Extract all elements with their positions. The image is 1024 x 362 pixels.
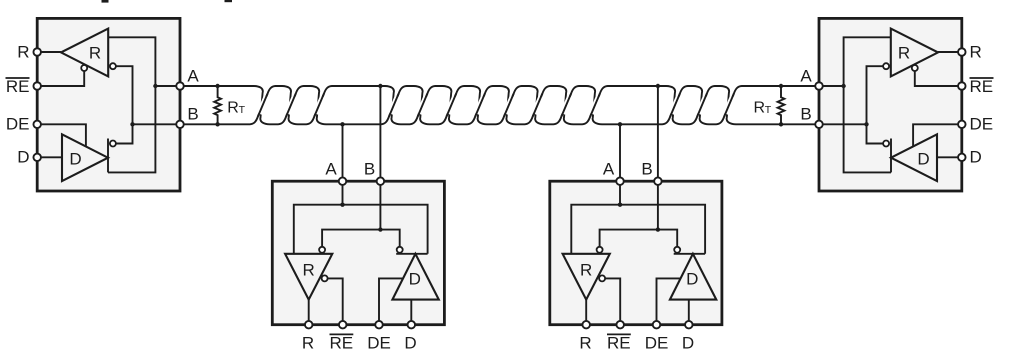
svg-text:RE: RE (607, 334, 631, 353)
pin RE (616, 321, 624, 329)
driver D of U4 (891, 134, 937, 181)
pin B (377, 177, 385, 185)
svg-text:A: A (325, 160, 337, 179)
node B junction (864, 122, 868, 126)
cropped caption fragment 2 (225, 0, 233, 2)
resistor RT (left termination) (214, 86, 221, 124)
pin DE (33, 121, 41, 129)
wire receiver output to R pin (308, 300, 310, 325)
pin B (815, 121, 823, 129)
svg-text:D: D (917, 150, 929, 169)
receiver enable bubble (912, 65, 918, 71)
bus tap junction A (618, 122, 622, 126)
wire receiver enable to RE pin (605, 278, 620, 324)
driver D of U1 (62, 134, 108, 181)
svg-text:R: R (580, 260, 592, 279)
wire driver output+ to node A (620, 205, 705, 254)
pin A (616, 177, 624, 185)
svg-text:D: D (69, 150, 81, 169)
node A junction (618, 203, 622, 207)
svg-text:D: D (404, 334, 416, 353)
wire receiver input+ to node A (844, 37, 891, 86)
pin B (654, 177, 662, 185)
driver output- bubble (110, 141, 116, 147)
node B junction (378, 227, 382, 231)
wire receiver enable to RE pin (328, 278, 343, 324)
driver D of U3 (670, 254, 716, 300)
svg-text:R: R (898, 44, 910, 63)
pin DE (958, 121, 966, 129)
wire D pin to driver input (410, 300, 412, 325)
svg-text:B: B (364, 160, 375, 179)
pin RE (958, 82, 966, 90)
svg-text:R: R (89, 44, 101, 63)
svg-text:RE: RE (970, 77, 994, 96)
wire B pin to node B (657, 181, 659, 229)
transceiver U4 box (819, 18, 962, 191)
driver output bar (107, 139, 109, 173)
wire receiver input+ to node A (294, 205, 343, 254)
resistor RT (right termination) (778, 86, 785, 124)
svg-text:D: D (409, 270, 421, 289)
pin D (685, 321, 693, 329)
pin D (33, 154, 41, 162)
wire DE pin to driver enable (913, 124, 962, 146)
wire crossing (over-pass) (671, 97, 678, 114)
wire crossing (over-pass) (591, 97, 598, 114)
receiver input- bubble (597, 247, 603, 253)
wire receiver input- to node B (867, 66, 883, 124)
receiver R of U2 (285, 254, 332, 300)
wire driver output+ to node A (844, 86, 891, 172)
svg-text:R: R (754, 99, 766, 116)
svg-text:DE: DE (6, 115, 30, 134)
receiver input- bubble (110, 63, 116, 69)
wire crossing (over-pass) (476, 97, 483, 114)
wire bus line A (twisted pair conductor A) (180, 86, 819, 124)
pin DE (653, 321, 661, 329)
bus tap junction A (340, 122, 344, 126)
stub wire A to bus (619, 124, 621, 181)
driver output- bubble (397, 247, 403, 253)
receiver R of U3 (563, 254, 610, 300)
transceiver U3 box (550, 181, 722, 325)
bus tap junction B (378, 84, 382, 88)
wire receiver input+ to node A (108, 37, 155, 86)
junction RT left top (215, 84, 219, 88)
svg-text:A: A (603, 160, 615, 179)
wire DE pin to driver enable (657, 278, 681, 324)
svg-text:D: D (686, 270, 698, 289)
pin R (582, 321, 590, 329)
pin D (958, 154, 966, 162)
wire receiver input+ to node A (571, 205, 620, 254)
receiver R of U4 (891, 29, 938, 77)
wire D pin to driver input (37, 156, 62, 158)
wire crossing (over-pass) (698, 97, 705, 114)
svg-text:R: R (303, 260, 315, 279)
wire driver output- to node B (867, 124, 883, 143)
pin A (815, 82, 823, 90)
svg-text:A: A (187, 66, 199, 85)
wire crossing (over-pass) (259, 97, 266, 114)
wire crossing (over-pass) (534, 97, 541, 114)
pin R (33, 48, 41, 56)
wire node B to B pin (133, 123, 181, 125)
svg-text:T: T (765, 104, 772, 116)
wire bus line B (twisted pair conductor B) (180, 86, 819, 124)
receiver enable bubble (322, 275, 328, 281)
wire crossing (over-pass) (563, 97, 570, 114)
wire crossing (over-pass) (505, 97, 512, 114)
driver output- bubble (883, 141, 889, 147)
svg-text:B: B (641, 160, 652, 179)
svg-text:DE: DE (367, 334, 391, 353)
receiver enable bubble (599, 275, 605, 281)
wire driver output- to node B (116, 124, 132, 143)
wire B pin to node B (379, 181, 381, 229)
wire D pin to driver input (688, 300, 690, 325)
svg-text:B: B (187, 105, 198, 124)
wire node A to A pin (155, 85, 180, 87)
bus tap junction B (656, 84, 660, 88)
wire receiver input- to node B (116, 66, 132, 124)
svg-text:RE: RE (6, 77, 30, 96)
wire driver output+ to node A (343, 205, 428, 254)
node A junction (841, 84, 845, 88)
pin R (958, 48, 966, 56)
cropped caption fragment 1 (102, 0, 109, 3)
wire node B to driver output- (380, 230, 399, 247)
wire receiver output to R pin (37, 51, 61, 53)
wire A pin to node A (342, 181, 344, 205)
svg-text:T: T (239, 104, 246, 116)
svg-text:R: R (302, 334, 314, 353)
svg-text:R: R (579, 334, 591, 353)
driver D of U2 (392, 254, 438, 300)
svg-text:DE: DE (970, 115, 994, 134)
wire DE pin to driver enable (379, 278, 403, 324)
pin DE (375, 321, 383, 329)
wire D pin to driver input (937, 156, 962, 158)
pin A (339, 177, 347, 185)
wire DE pin to driver enable (37, 124, 86, 146)
wire crossing (over-pass) (287, 97, 294, 114)
svg-text:DE: DE (645, 334, 669, 353)
node A junction (153, 84, 157, 88)
svg-text:D: D (17, 147, 29, 166)
receiver enable bubble (81, 65, 87, 71)
node A junction (340, 203, 344, 207)
receiver input- bubble (883, 63, 889, 69)
svg-text:D: D (682, 334, 694, 353)
wire crossing (over-pass) (419, 97, 426, 114)
svg-text:R: R (970, 42, 982, 61)
wire receiver enable to RE pin (915, 71, 962, 86)
pin RE (339, 321, 347, 329)
wire crossing (over-pass) (725, 97, 732, 114)
junction RT right top (779, 84, 783, 88)
pin R (305, 321, 313, 329)
junction RT right bottom (779, 122, 783, 126)
wire crossing (over-pass) (390, 97, 397, 114)
wire node B to B pin (819, 123, 867, 125)
junction RT left bottom (215, 122, 219, 126)
wire node B to receiver input- (600, 230, 658, 247)
wire node B to receiver input- (322, 230, 380, 247)
stub wire B to bus (379, 86, 381, 181)
pin D (408, 321, 416, 329)
wire receiver enable to RE pin (37, 71, 84, 86)
node B junction (656, 227, 660, 231)
wire receiver output to R pin (585, 300, 587, 325)
transceiver U2 box (272, 181, 444, 325)
driver output bar (890, 139, 892, 173)
wire A pin to node A (619, 181, 621, 205)
pin RE (33, 82, 41, 90)
pin A (176, 82, 184, 90)
svg-text:RE: RE (329, 334, 353, 353)
driver output bar (674, 253, 705, 255)
wire receiver output to R pin (938, 51, 962, 53)
wire driver output+ to node A (108, 86, 155, 172)
node B junction (130, 122, 134, 126)
svg-text:R: R (17, 42, 29, 61)
receiver input- bubble (319, 247, 325, 253)
svg-text:B: B (800, 105, 811, 124)
svg-text:A: A (800, 66, 812, 85)
stub wire B to bus (657, 86, 659, 181)
receiver R of U1 (61, 29, 108, 77)
pin B (176, 121, 184, 129)
svg-text:R: R (227, 99, 239, 116)
driver output bar (396, 253, 427, 255)
wire node B to driver output- (658, 230, 677, 247)
wire crossing (over-pass) (448, 97, 455, 114)
wire node A to A pin (819, 85, 844, 87)
transceiver U1 box (37, 18, 180, 191)
stub wire A to bus (342, 124, 344, 181)
svg-text:D: D (970, 147, 982, 166)
wire crossing (over-pass) (316, 97, 323, 114)
driver output- bubble (674, 247, 680, 253)
